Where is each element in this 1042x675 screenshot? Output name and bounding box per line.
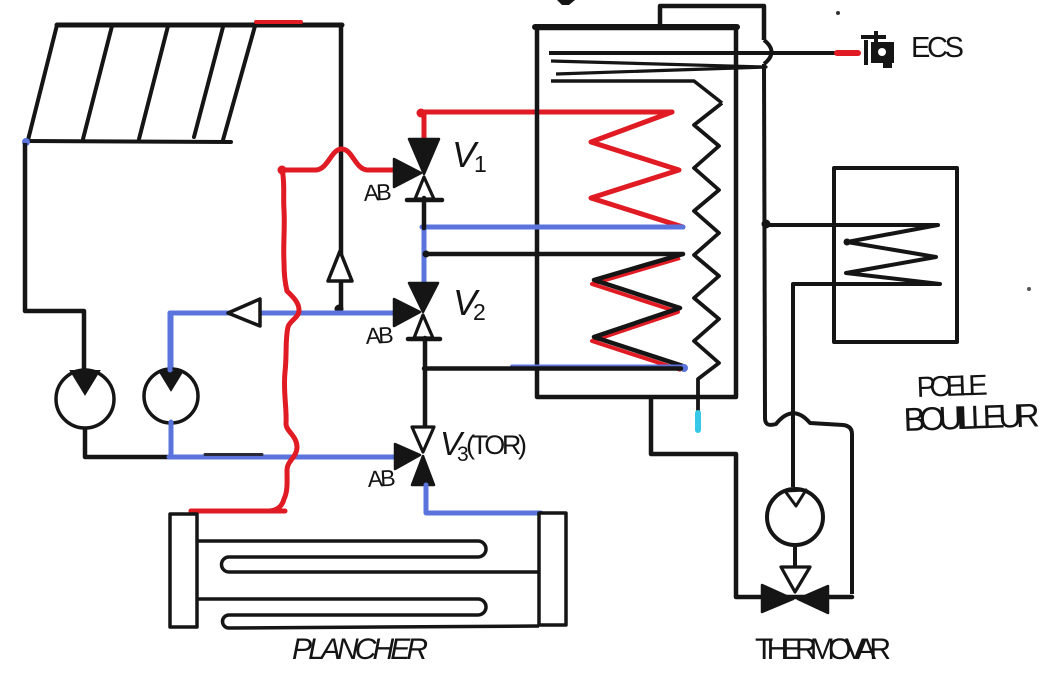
coil: upper exchanger (red zigzag in tank): [591, 112, 683, 227]
pump P2: [144, 369, 198, 423]
red feed stub into floor loop left bar: [191, 509, 285, 514]
left manifold bar: [170, 514, 197, 627]
wire: black V2 to V3: [423, 338, 428, 428]
hop over ECS line: [764, 40, 772, 64]
valve V2: [394, 283, 440, 339]
THERMOVAR sensor bulb: [767, 489, 823, 545]
svg-text:(TOR): (TOR): [466, 430, 527, 460]
wire: black line to lower coil top: [425, 252, 683, 257]
junction blob at bottom of vertical pipe: [335, 305, 344, 314]
coil: tall zigzag in tank: [694, 103, 722, 411]
serpentine tube upper: [197, 541, 539, 572]
pump P1: [56, 370, 114, 428]
wire: blue segment at lower coil bottom: [512, 365, 683, 369]
node: blue dot at panel corner: [22, 138, 30, 146]
wire: lower blue return line to valve V3: [169, 455, 396, 460]
faucet icon: [861, 31, 886, 65]
pipe: riser curve with hop over stove return, to thermovar right leg: [765, 413, 852, 594]
tank (ballon): [537, 28, 736, 397]
wire: pump P2 outlet (blue): [169, 422, 174, 457]
wire: middle blue return line to valve V2: [168, 313, 173, 370]
flow arrow (open, up) on vertical pipe: [328, 251, 352, 281]
svg-text:1: 1: [474, 151, 487, 177]
wire: blue drop into pump P2: [169, 315, 174, 370]
wire: black below V1: [422, 198, 427, 228]
valve V3: [395, 427, 434, 485]
solar collector panel: [26, 25, 255, 142]
svg-text:AB: AB: [365, 322, 394, 349]
svg-text:2: 2: [473, 299, 486, 325]
coil: lower exchanger (black zigzag): [594, 254, 683, 366]
pipe: tank top bracket to right riser: [660, 6, 764, 40]
stray ink mark at top edge: [557, 0, 575, 5]
red pipe: hop over black vertical to valve V1: [282, 149, 395, 170]
valve V1: [394, 139, 442, 200]
flow arrow (open, left) on middle return line: [228, 299, 260, 326]
svg-text:AB: AB: [367, 465, 396, 492]
red trace on top header: [256, 20, 301, 24]
pipe: tank bottom drain to thermovar: [651, 398, 736, 597]
right manifold bar: [539, 513, 566, 625]
ECS outlet: red dash: [837, 50, 858, 56]
ECS coil flat spiral at tank top: [549, 51, 836, 55]
stove coil: [767, 225, 940, 487]
THERMOVAR valve top port (open triangle): [781, 567, 810, 592]
cyan sensor tick below tank: [695, 413, 701, 430]
stray ink dots: [836, 11, 840, 15]
red pipe: solar hot squiggle down to floor loop: [191, 169, 299, 511]
svg-text:BOUILLEUR: BOUILLEUR: [903, 396, 1040, 438]
serpentine tube lower: [197, 599, 539, 628]
wire: bulb to valve: [793, 547, 797, 567]
pipe: collector top header (black): [57, 23, 342, 28]
wire: blue drop V1 to V2: [422, 228, 427, 284]
svg-text:PLANCHER: PLANCHER: [292, 633, 428, 666]
pipe: collector flow vertical (black, x=341): [339, 27, 344, 308]
stove POELE BOUILLEUR box: [834, 168, 957, 342]
dark trace on lower return line: [205, 453, 262, 456]
wire: blue line valve V1 to tank coil: [422, 225, 683, 230]
red pipe: valve V1 top riser and tank feed: [422, 113, 427, 140]
svg-text:ECS: ECS: [911, 32, 964, 64]
wire: collector return left pipe down to pump P1: [25, 143, 84, 369]
wire: blue below V3 to floor loop: [426, 485, 541, 513]
coil: lower exchanger red echo: [592, 258, 681, 370]
svg-text:AB: AB: [363, 179, 392, 206]
svg-text:THERMOVAR: THERMOVAR: [755, 633, 891, 666]
THERMOVAR valve body (bowtie): [762, 585, 793, 612]
junction dot to stove coil: [762, 220, 771, 229]
wire: pump P1 outlet (black): [85, 428, 172, 457]
wire: right riser down: [764, 64, 765, 418]
wire: black line lower coil bottom to valves: [424, 366, 681, 371]
